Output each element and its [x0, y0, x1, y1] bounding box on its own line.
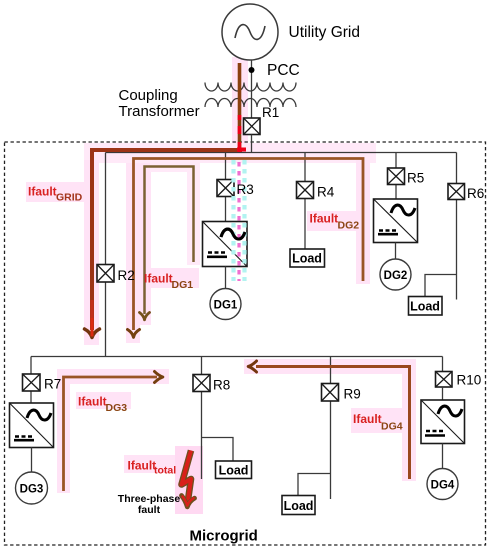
svg-text:R8: R8	[213, 378, 230, 393]
svg-text:Ifault: Ifault	[128, 459, 157, 473]
svg-text:Load: Load	[410, 300, 440, 314]
wire: R5 feeder vertical	[395, 153, 397, 200]
wire: R8 feeder to load tap	[202, 438, 234, 462]
load L1 on feeder R4	[290, 249, 325, 267]
pink highlight halo IfaultDG1 label	[142, 268, 199, 288]
svg-text:Ifault: Ifault	[28, 185, 57, 199]
red overlay dashes on grid fault line near R1	[237, 115, 246, 152]
label: IfaultGRID	[28, 185, 83, 204]
generator DG4	[427, 469, 458, 500]
svg-text:DG1: DG1	[214, 300, 238, 312]
coupling transformer T1 primary winding	[205, 83, 296, 92]
svg-text:PCC: PCC	[267, 62, 300, 79]
label: R4	[317, 185, 335, 200]
inverter U2 for DG2	[374, 199, 418, 243]
wire: R4 feeder vertical	[304, 153, 306, 250]
svg-text:Ifault: Ifault	[78, 395, 107, 409]
wire: R10 to inverter U4	[442, 387, 444, 400]
label: R8	[213, 378, 230, 393]
svg-text:Load: Load	[284, 499, 314, 513]
svg-text:Transformer: Transformer	[119, 103, 200, 120]
pink highlight halo along top horizontal fault path	[84, 143, 376, 163]
label: R5	[407, 171, 424, 186]
label: Ifault total	[128, 459, 177, 477]
wire: inverter U2 to DG2	[395, 243, 397, 260]
svg-text:R10: R10	[457, 373, 482, 388]
utility grid source G1	[222, 4, 278, 60]
svg-text:DG2: DG2	[384, 270, 408, 282]
svg-text:DG1: DG1	[172, 279, 194, 291]
wire: R6 feeder vertical	[456, 153, 458, 300]
svg-text:Ifault: Ifault	[310, 212, 339, 226]
svg-text:Microgrid: Microgrid	[190, 528, 258, 545]
fault current path IfaultGRID (thick)	[85, 63, 243, 338]
svg-text:R1: R1	[262, 105, 279, 120]
wire: R9 feeder vertical	[330, 357, 332, 500]
wire: bus corner down to R10	[442, 357, 444, 372]
node PCC (junction dot)	[249, 67, 255, 73]
label: IfaultDG3	[78, 395, 127, 415]
three-phase fault lightning bolt	[182, 451, 195, 507]
relay R4 (breaker box with X)	[297, 182, 314, 199]
relay R10 (breaker box with X)	[436, 372, 453, 388]
pink highlight halo IfaultDG2 down vertical	[126, 163, 140, 343]
fault current path IfaultDG1	[140, 167, 194, 320]
generator DG2	[380, 259, 411, 290]
wire: inverter U4 to DG4	[442, 444, 444, 469]
label: R3	[237, 182, 254, 197]
svg-text:DG4: DG4	[431, 480, 455, 492]
fault current path IfaultDG4	[248, 361, 409, 479]
svg-text:Load: Load	[292, 252, 322, 266]
inverter U3 for DG3	[10, 403, 54, 448]
wire: utility grid to PCC	[251, 60, 253, 80]
wire: R2 feeder vertical	[105, 153, 107, 357]
svg-text:Coupling: Coupling	[119, 87, 178, 104]
svg-text:DG3: DG3	[106, 402, 128, 414]
label: Microgrid	[190, 528, 258, 545]
label: Coupling Transformer	[119, 87, 200, 120]
relay R2 (breaker box with X)	[97, 265, 114, 283]
svg-text:GRID: GRID	[56, 192, 83, 204]
pink highlight halo IfaultDG1 horizontal	[150, 160, 200, 172]
svg-text:DG4: DG4	[381, 421, 403, 433]
label: IfaultDG2	[310, 212, 360, 232]
label: R6	[467, 186, 484, 201]
svg-text:R5: R5	[407, 171, 424, 186]
wire: R3 feeder vertical	[225, 153, 227, 222]
relay R3 (breaker box with X)	[217, 180, 234, 197]
magenta highlight dashes on DG1 feeder	[237, 162, 240, 281]
svg-text:R7: R7	[44, 377, 61, 392]
relay R8 (breaker box with X)	[193, 375, 210, 392]
load L4 on feeder R9	[282, 496, 315, 515]
label: R2	[118, 268, 135, 283]
label: IfaultDG4	[353, 412, 403, 433]
pink highlight halo along grid fault path (top vertical)	[232, 57, 248, 161]
coupling transformer T1 secondary winding	[205, 99, 296, 108]
svg-text:DG2: DG2	[338, 220, 360, 232]
dashed microgrid boundary box	[5, 142, 486, 545]
top distribution bus wire	[106, 152, 457, 154]
fault current path IfaultDG3	[64, 372, 163, 492]
svg-text:R2: R2	[118, 268, 135, 283]
load L2 on feeder R6	[409, 297, 443, 316]
label: R9	[344, 387, 361, 402]
lower microgrid bus wire	[31, 356, 443, 358]
svg-text:Load: Load	[219, 464, 249, 478]
pink highlight halo IfaultDG2 right vertical	[356, 160, 370, 284]
inverter U4 for DG4	[421, 400, 465, 444]
label: R10	[457, 373, 482, 388]
wire: R1 to top bus	[251, 135, 253, 154]
wire: R6 feeder to load tap	[425, 275, 457, 297]
wire: R8 feeder vertical to fault point	[201, 357, 203, 480]
relay R9 (breaker box with X)	[322, 384, 339, 402]
label: IfaultDG1	[144, 272, 193, 292]
svg-text:DG3: DG3	[20, 484, 44, 496]
svg-text:R4: R4	[317, 185, 335, 200]
svg-text:Ifault: Ifault	[144, 272, 173, 286]
svg-text:Ifault: Ifault	[353, 412, 382, 426]
svg-text:R3: R3	[237, 182, 254, 197]
label: Three-phase fault	[118, 493, 181, 516]
svg-text:fault: fault	[138, 504, 161, 516]
wire: inverter U1 to DG1	[225, 267, 227, 289]
label: R7	[44, 377, 61, 392]
wire: through coupling transformer to relay R1	[251, 80, 253, 118]
pink highlight halo IfaultDG4 path	[244, 359, 416, 481]
inverter U1 AC sine symbol (drawn over highlight)	[221, 229, 245, 239]
inverter U1 for DG1	[203, 222, 248, 267]
pink highlight halo IfaultGRID vertical	[84, 160, 99, 345]
pink highlight halo IfaultDG3 path	[57, 369, 169, 493]
label: Utility Grid	[289, 24, 360, 41]
load L3 on feeder R8	[216, 461, 252, 479]
pink highlight halo IfaultGRID label	[26, 182, 88, 202]
svg-text:Utility Grid: Utility Grid	[289, 24, 360, 41]
generator DG1	[210, 289, 241, 320]
relay R5 (breaker box with X)	[388, 168, 405, 185]
relay R7 (breaker box with X)	[23, 374, 41, 391]
pink highlight halo IfaultDG2 label	[307, 211, 363, 231]
generator DG3	[16, 472, 48, 504]
label: R1	[262, 105, 279, 120]
label: PCC	[267, 62, 300, 79]
svg-text:R9: R9	[344, 387, 361, 402]
svg-text:R6: R6	[467, 186, 484, 201]
pink highlight halo Ifault total + bolt	[124, 446, 203, 514]
pink highlight halo IfaultDG1 right vertical	[187, 170, 200, 265]
wire: inverter U3 to DG3	[31, 448, 33, 473]
wire: R7 feeder vertical	[30, 357, 32, 404]
relay R6 (breaker box with X)	[448, 184, 465, 200]
cyan highlight dashes on DG1 feeder	[234, 160, 245, 281]
fault current path IfaultDG2	[128, 159, 364, 338]
relay R1 (breaker box with X)	[244, 118, 261, 135]
wire: R9 feeder to load tap	[298, 474, 331, 496]
pink highlight halo IfaultDG1 down vertical	[138, 163, 151, 325]
svg-text:total: total	[154, 465, 176, 477]
